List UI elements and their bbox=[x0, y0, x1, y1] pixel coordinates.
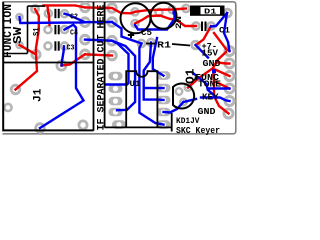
function sw box right edge bbox=[27, 6, 29, 53]
wire red S1 pad D to pad E bbox=[20, 45, 37, 55]
wire blue bus line 2 bbox=[112, 41, 135, 111]
header left column pad 4 bbox=[81, 50, 90, 59]
wire red Q1 to right run bbox=[188, 68, 213, 88]
capacitor C6 outline bbox=[151, 3, 177, 29]
right edge connector pad 6 bbox=[224, 109, 233, 118]
U1 pin 5 pad bbox=[157, 108, 171, 117]
capacitor C5 pad 2 bbox=[131, 20, 138, 27]
pad near D1 anode bbox=[182, 5, 189, 12]
wire red branch to right pad 4 bbox=[214, 81, 230, 89]
capacitor C2 symbol bbox=[55, 9, 58, 18]
wire blue header row3 across cut bbox=[85, 40, 112, 41]
wire blue C2 to header bbox=[65, 14, 86, 23]
diode D1 body bbox=[190, 6, 225, 16]
transistor Q1 pad 3 bbox=[180, 99, 187, 106]
wire blue C3 to J1 long run bbox=[62, 46, 65, 65]
resistor R1 left pad bbox=[138, 40, 145, 47]
wire red S1 to J1 bbox=[16, 9, 39, 90]
wire blue C5 bottom left bbox=[112, 22, 142, 44]
capacitor C4 symbol bbox=[55, 25, 58, 34]
silk text block left edge bbox=[171, 113, 173, 132]
wire blue bus line 1 bbox=[106, 41, 129, 85]
wire red right middle run bbox=[213, 52, 229, 114]
capacitor C1 left pad bbox=[192, 22, 199, 29]
header right column pad 2 bbox=[108, 18, 117, 27]
silk line top switch bbox=[28, 5, 46, 7]
svg-text:Q1: Q1 bbox=[184, 69, 198, 85]
svg-text:2N: 2N bbox=[175, 16, 184, 29]
wire blue D1 cathode fork a bbox=[211, 13, 227, 27]
via blue square bbox=[173, 11, 177, 15]
wire blue bus line 4 bbox=[144, 43, 164, 101]
wire red GND to right pad 2 bbox=[217, 63, 230, 64]
pad S1 pin E bbox=[32, 50, 40, 58]
header right column pad 4 bbox=[108, 51, 117, 60]
board outline left section bbox=[3, 2, 93, 130]
via blue square near FUNC bbox=[212, 69, 216, 73]
wire red C2 pad down to blue crossing bbox=[48, 14, 51, 26]
pad S1 pin A bbox=[16, 14, 22, 20]
transistor Q1 pad 1 bbox=[176, 88, 183, 95]
svg-text:C3: C3 bbox=[67, 44, 75, 52]
wire blue D1 cathode fork b bbox=[224, 13, 230, 51]
capacitor C4 right pad bbox=[61, 26, 68, 33]
right edge connector pad 2 bbox=[225, 59, 234, 68]
svg-text:C1: C1 bbox=[219, 27, 230, 36]
U1 pin 7 pad bbox=[157, 84, 171, 93]
wire blue Q1 right stub bbox=[184, 99, 197, 102]
wire red stub into C2 left pad bbox=[46, 6, 49, 14]
svg-text:SW: SW bbox=[12, 27, 25, 44]
pads group bbox=[4, 3, 234, 132]
J1 pad 3 bbox=[36, 124, 45, 133]
capacitor C6 pad 1 bbox=[155, 9, 162, 16]
wire blue U1 to Q1 bbox=[164, 102, 184, 113]
wire blue R1 to GND area bbox=[196, 45, 209, 58]
bottom right oblong pad bbox=[157, 120, 171, 129]
wire blue right middle run bbox=[193, 73, 230, 89]
pad S1 pin D bbox=[16, 42, 22, 48]
wire blue bus line 3 bbox=[139, 44, 163, 125]
pad D1 cathode bbox=[224, 9, 232, 17]
svg-text:R1: R1 bbox=[157, 39, 171, 50]
cut line left bbox=[93, 2, 95, 131]
wire red divider zigzag bbox=[62, 54, 86, 65]
svg-text:C5: C5 bbox=[141, 29, 152, 38]
svg-text:U1: U1 bbox=[130, 79, 141, 89]
capacitor C5 pad 1 bbox=[131, 8, 138, 15]
blue traces (bottom copper) bbox=[20, 11, 230, 129]
svg-text:GND: GND bbox=[198, 107, 217, 117]
svg-text:KD1JV: KD1JV bbox=[176, 116, 200, 126]
wire red header row4 across cut bbox=[85, 54, 112, 55]
pad below C5 bbox=[147, 39, 154, 46]
wire blue bus line 4 stub pin2 bbox=[144, 87, 164, 89]
resistor R1 right pad bbox=[192, 41, 200, 49]
wire blue KEY stub bbox=[201, 98, 230, 102]
wire blue C6 via drop bbox=[135, 13, 175, 30]
resistor R1 lead right bbox=[172, 44, 190, 46]
capacitor C2 right pad bbox=[61, 10, 68, 17]
U1 left oblong pads bbox=[109, 71, 171, 129]
pad S1 pin B bbox=[31, 5, 38, 12]
svg-text:TONE: TONE bbox=[198, 80, 222, 90]
resistor R1 lead left bbox=[146, 43, 155, 45]
header right column pad 3 bbox=[108, 36, 117, 45]
U1 pin 4 pad bbox=[109, 108, 123, 117]
cut line right bbox=[104, 2, 106, 128]
header right column pad 1 bbox=[108, 4, 117, 13]
right edge connector pad 4 bbox=[225, 84, 234, 93]
svg-text:KEY: KEY bbox=[202, 93, 219, 103]
right edge connector pad 5 bbox=[225, 97, 234, 106]
capacitor C4 left pad bbox=[44, 26, 51, 33]
J1 pad 2 bbox=[4, 104, 11, 111]
red traces (top copper) bbox=[16, 5, 230, 113]
header left column pad 2 bbox=[81, 18, 90, 27]
silkscreen black bbox=[3, 2, 205, 132]
capacitor C6 pad 2 bbox=[168, 6, 175, 13]
wire red top edge run bbox=[44, 5, 86, 7]
wire red right pad3 stub bbox=[215, 70, 230, 77]
capacitor C5 outline bbox=[121, 3, 151, 33]
wire blue S1 pad A to bus bbox=[20, 17, 86, 23]
svg-text:C4: C4 bbox=[70, 30, 78, 38]
header left column pad 1 bbox=[81, 3, 90, 12]
capacitor C3 symbol bbox=[55, 41, 58, 50]
wire red C5 to C6 to D1 pad bbox=[135, 9, 186, 12]
svg-text:15V: 15V bbox=[202, 49, 219, 59]
capacitor C1 right pad bbox=[207, 22, 214, 29]
diode D1 band bbox=[201, 7, 221, 14]
U1 pin 8 pad bbox=[157, 71, 171, 80]
right edge connector pad 1 bbox=[225, 47, 234, 56]
pad on divider node bbox=[57, 61, 66, 70]
wire blue bus line 5 bbox=[153, 38, 164, 76]
svg-text:IF SEPARATED CUT HERE: IF SEPARATED CUT HERE bbox=[95, 5, 107, 131]
wire red to right pad 1 bbox=[214, 33, 230, 51]
divider line bbox=[3, 62, 93, 64]
U1 pin 6 pad bbox=[157, 96, 171, 105]
capacitor C3 right pad bbox=[61, 42, 68, 49]
board outline right section bottom bbox=[105, 126, 172, 128]
wire red C6 area to C1 bbox=[135, 16, 196, 27]
right edge connector pad 3 bbox=[225, 72, 234, 81]
svg-text:SKC Keyer: SKC Keyer bbox=[176, 126, 220, 136]
wire red C1 to R1 right region bbox=[196, 26, 211, 45]
J1 pad 1 bbox=[11, 85, 20, 94]
U1 pin 2 pad bbox=[109, 84, 123, 93]
transistor Q1 pad 2 bbox=[185, 84, 192, 91]
transistor Q1 outline bbox=[173, 84, 194, 109]
svg-text:GND: GND bbox=[203, 59, 222, 69]
svg-text:D1: D1 bbox=[204, 9, 217, 17]
J1 pad 4 bbox=[79, 121, 87, 129]
capacitor C2 left pad bbox=[45, 10, 52, 17]
function sw box bottom edge bbox=[3, 53, 27, 55]
header left column pad 3 bbox=[81, 35, 90, 44]
U1 pin 1 pad bbox=[109, 72, 123, 81]
wire blue diag to KEY line bbox=[208, 90, 216, 97]
wire blue C4 bend bbox=[40, 25, 84, 128]
svg-text:J1: J1 bbox=[33, 88, 45, 102]
svg-text:S1: S1 bbox=[33, 27, 42, 36]
bottom left oblong pad bbox=[112, 120, 126, 129]
capacitor C1 symbol bbox=[202, 22, 206, 32]
svg-text:C2: C2 bbox=[70, 14, 78, 22]
wire blue header row2 across cut bbox=[85, 21, 112, 24]
window frame bbox=[3, 2, 236, 134]
U1 pin holes bbox=[113, 74, 118, 79]
IC U1 outline bbox=[126, 71, 157, 127]
capacitor C5 plus sign bbox=[128, 32, 134, 38]
capacitor C3 left pad bbox=[44, 42, 51, 49]
U1 pin 3 pad bbox=[109, 97, 123, 106]
wire red header row1 across cut bbox=[85, 7, 135, 13]
